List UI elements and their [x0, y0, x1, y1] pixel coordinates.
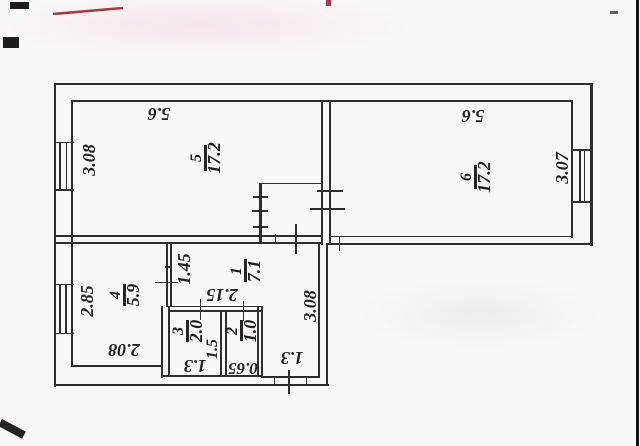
rooms3-2 top wall line A	[166, 306, 263, 308]
room 4 label 4/5.9	[107, 273, 145, 317]
scan artifact: top-left black bar	[10, 2, 29, 10]
closet tick 1	[253, 196, 268, 198]
wall room4/room3 lower	[161, 306, 163, 378]
room2 right wall line A	[257, 306, 259, 377]
hallway inner bottom	[261, 376, 320, 378]
dim 2.08 room4	[94, 340, 154, 360]
entrance door tick	[288, 370, 290, 394]
dim tick 1.45	[155, 282, 178, 284]
entrance jamb left	[274, 376, 276, 385]
door leaf line room 6	[310, 208, 345, 210]
window room4 line B	[65, 284, 67, 335]
door tick room5/hall tall	[295, 224, 297, 254]
dim 5.6 room6	[443, 106, 503, 126]
room3 left wall	[168, 306, 170, 377]
outer wall right	[590, 83, 592, 246]
scan artifact: red tick top center	[326, 0, 331, 6]
outer wall left	[54, 83, 56, 388]
dim 3.07 room6	[552, 138, 572, 198]
rooms3-2 bottom wall	[161, 375, 264, 377]
dim 0.65 room2	[213, 358, 273, 378]
entrance jamb right	[306, 376, 308, 385]
wall room3/room2 line B	[225, 310, 227, 377]
window room5 cap bottom	[54, 189, 74, 191]
dim 1.3 room3	[165, 356, 225, 376]
scan artifact: left edge black square	[3, 37, 19, 48]
dim 2.15 hall	[192, 285, 252, 305]
scan artifact: red pen stroke top-left	[53, 2, 123, 10]
closet top line	[259, 183, 322, 185]
room4 inner bottom	[71, 365, 162, 367]
window room4 cap top	[54, 284, 74, 286]
dim tick small on wall	[165, 266, 173, 268]
window room6 line B	[584, 149, 586, 202]
dim 2.85 room4	[77, 271, 97, 331]
window room4 cap bottom	[54, 333, 74, 335]
window room5 line A	[59, 142, 61, 191]
outer wall bottom (lower block)	[54, 384, 329, 386]
inner wall top	[71, 100, 573, 102]
closet bold partition	[259, 183, 262, 244]
inner wall right	[571, 100, 573, 238]
outer wall top	[54, 83, 594, 85]
wall room3/room2 line A	[220, 310, 222, 377]
window room4 line A	[59, 284, 61, 335]
scan artifact: small dash right top	[610, 11, 618, 14]
door tick room2	[243, 301, 245, 321]
closet tick 2	[252, 210, 268, 212]
dim 3.08 hall	[300, 276, 320, 336]
window room5 cap top	[54, 142, 74, 144]
window room6 cap top	[572, 149, 592, 151]
partition wall room5/room6 line A	[321, 100, 323, 246]
room 3 label 3/2.0	[170, 309, 208, 353]
partition tick	[317, 190, 343, 192]
scan artifact: right edge black line	[636, 0, 639, 446]
dim 5.6 room5	[129, 104, 189, 124]
room 2 label 2/1.0	[224, 309, 262, 353]
door jamb tick below room6 wall	[339, 237, 341, 251]
closet tick 3	[253, 226, 268, 228]
wall room5/lower line A	[54, 235, 324, 237]
dim 1.45 hall	[174, 239, 194, 299]
room 5 label 5/17.2	[188, 136, 226, 180]
rooms3-2 top wall line B	[168, 310, 263, 312]
dim 3.08 room5	[79, 130, 99, 190]
door tick room5/hall short	[275, 234, 277, 244]
room 1 label 1/7.1	[228, 249, 266, 293]
wall room5/lower line B	[54, 242, 324, 244]
inner wall right of hallway	[318, 243, 320, 379]
inner bottom of room 6	[329, 236, 573, 238]
wall room4/hall line B	[170, 242, 172, 307]
window room6 cap bottom	[572, 201, 592, 203]
outer wall bottom of room 6	[326, 243, 592, 245]
inner wall left	[71, 100, 73, 368]
scan artifact: bottom-left wedge	[0, 419, 26, 439]
dim 1.3 entrance	[262, 348, 322, 368]
room 6 label 6/17.2	[458, 155, 496, 199]
dim 1.5 room3	[203, 319, 223, 379]
window room6 line A	[579, 149, 581, 202]
room2 right wall line B	[261, 306, 263, 379]
door tick room3	[200, 299, 202, 320]
paper texture wash right	[330, 250, 630, 410]
wall room4/hall line A	[166, 242, 168, 307]
window room5 line B	[66, 142, 68, 191]
partition wall room5/room6 line B	[329, 100, 331, 246]
paper texture wash top	[0, 0, 640, 80]
outer wall right of lower block	[326, 243, 328, 386]
